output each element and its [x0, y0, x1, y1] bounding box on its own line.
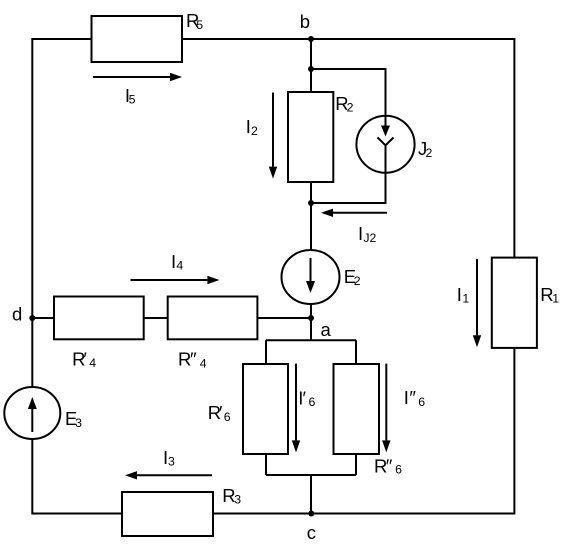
svg-text:a: a: [321, 319, 332, 340]
svg-text:″: ″: [190, 349, 197, 370]
svg-text:′: ′: [83, 349, 87, 370]
svg-text:2: 2: [347, 101, 354, 115]
svg-text:b: b: [300, 11, 310, 32]
svg-text:6: 6: [418, 395, 425, 409]
svg-text:I: I: [404, 387, 409, 408]
svg-text:I: I: [457, 284, 462, 305]
svg-text:J2: J2: [363, 231, 376, 245]
svg-text:6: 6: [309, 395, 316, 409]
svg-text:4: 4: [200, 357, 207, 371]
svg-text:1: 1: [462, 292, 469, 306]
svg-text:I: I: [358, 223, 363, 244]
svg-text:″: ″: [409, 387, 416, 408]
svg-text:2: 2: [251, 124, 258, 138]
svg-text:′: ′: [219, 402, 223, 423]
svg-text:d: d: [12, 304, 22, 325]
svg-text:2: 2: [426, 146, 433, 160]
svg-text:4: 4: [176, 259, 183, 273]
svg-text:3: 3: [168, 455, 175, 469]
svg-text:′: ′: [303, 388, 307, 409]
svg-text:2: 2: [354, 274, 361, 288]
svg-text:1: 1: [552, 292, 559, 306]
svg-text:6: 6: [224, 410, 231, 424]
svg-text:3: 3: [75, 416, 82, 430]
svg-text:″: ″: [386, 456, 393, 477]
svg-text:3: 3: [234, 493, 241, 507]
svg-text:I: I: [171, 251, 176, 272]
svg-text:5: 5: [129, 93, 136, 107]
svg-text:c: c: [307, 522, 316, 543]
svg-text:4: 4: [89, 356, 96, 370]
svg-text:5: 5: [196, 18, 203, 32]
svg-text:6: 6: [395, 463, 402, 477]
